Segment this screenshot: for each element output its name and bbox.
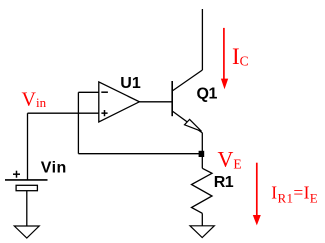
resistor R1 zigzag	[192, 168, 213, 213]
wire: collector vertical	[201, 9, 203, 70]
ground (left)	[14, 226, 39, 238]
wire: below battery	[26, 191, 28, 226]
svg-text:Vin: Vin	[41, 159, 67, 176]
battery Vin long plate	[5, 179, 48, 181]
transistor Q1 base bar	[171, 81, 173, 116]
wire: below resistor	[201, 213, 203, 226]
svg-text:U1: U1	[120, 75, 141, 92]
current arrow IC	[223, 28, 225, 80]
svg-text:Q1: Q1	[197, 86, 218, 103]
battery Vin plus sign	[13, 173, 20, 175]
ground (right)	[190, 226, 214, 238]
wire: feedback bottom horizontal	[78, 153, 202, 155]
wire: node to resistor R1	[201, 154, 203, 169]
wire: feedback vertical	[77, 92, 79, 153]
battery Vin short plate (hollow)	[16, 185, 37, 190]
wire: base wire from op-amp output	[139, 101, 172, 103]
wire: collector diagonal of Q1	[172, 70, 202, 91]
op-amp plus sign	[101, 112, 107, 114]
op-amp U1 triangle	[99, 82, 140, 122]
wire: emitter diagonal of Q1	[172, 111, 202, 133]
svg-text:R1: R1	[214, 174, 234, 191]
wire: non-inverting input from Vin	[28, 112, 99, 114]
wire: emitter vertical down to node	[201, 133, 203, 154]
wire: inverting input	[78, 91, 98, 93]
op-amp minus sign	[101, 91, 108, 93]
wire: Vin source vertical	[27, 113, 29, 180]
node at emitter junction	[199, 151, 205, 157]
current arrow IR1	[256, 163, 258, 217]
transistor Q1 emitter arrowhead	[185, 119, 202, 131]
